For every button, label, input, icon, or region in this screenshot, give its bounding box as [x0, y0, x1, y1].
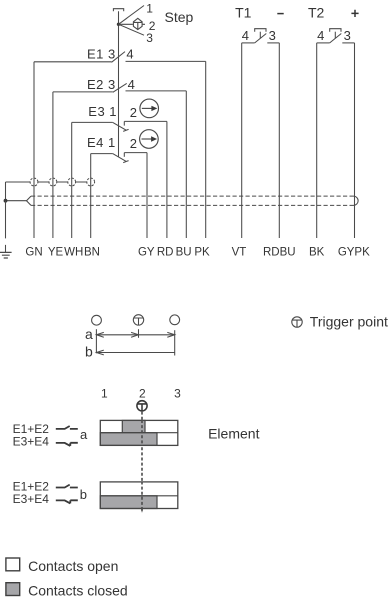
connector circle on YE [49, 178, 57, 186]
E4 contact blade [113, 154, 127, 162]
step selector line to position 3 [119, 24, 145, 35]
svg-text:2: 2 [130, 105, 137, 120]
T1 bracket [255, 29, 266, 32]
cable sheath dashed top line [31, 195, 354, 197]
svg-text:E1 3: E1 3 [87, 47, 116, 62]
dimension line a [96, 334, 174, 336]
arrowhead a right [167, 332, 174, 337]
svg-text:VT: VT [232, 246, 247, 258]
step selector line to position 2 [119, 23, 146, 25]
T2 contact right wire pin 3 [342, 42, 354, 44]
wire BK vertical [316, 43, 318, 238]
dimension right circle [170, 315, 180, 325]
svg-text:4: 4 [128, 77, 135, 92]
svg-text:4: 4 [317, 28, 324, 43]
svg-text:RD: RD [157, 246, 174, 258]
svg-text:3: 3 [344, 28, 351, 43]
wire RD vertical [166, 121, 168, 238]
svg-text:Trigger point: Trigger point [310, 314, 388, 330]
svg-text:E2 3: E2 3 [87, 77, 116, 92]
svg-text:1: 1 [101, 386, 108, 400]
svg-text:PK: PK [194, 246, 210, 258]
svg-text:a: a [85, 326, 93, 342]
E4 blade tip tick [123, 161, 128, 163]
cable sheath right end cap [354, 196, 359, 205]
row b mini closed contact [56, 500, 78, 503]
svg-text:Contacts open: Contacts open [28, 558, 118, 574]
E2 left wire pin 3 [53, 91, 113, 93]
element block a bottom row gray segment [100, 433, 157, 446]
wire GN vertical [33, 62, 35, 238]
cable sheath fork [27, 196, 32, 205]
svg-text:T1: T1 [235, 5, 252, 21]
arrowhead a middle [131, 332, 138, 337]
svg-text:T2: T2 [308, 5, 325, 21]
label minus [277, 13, 283, 15]
wire BU vertical [185, 91, 187, 238]
connector circle on WH [68, 178, 76, 186]
svg-text:3: 3 [269, 28, 276, 43]
element block a row divider [100, 432, 178, 434]
element block b border [100, 482, 178, 509]
wire WH vertical [71, 122, 73, 238]
svg-text:4: 4 [126, 47, 133, 62]
legend open box [6, 558, 20, 571]
step selector bracket [113, 9, 123, 12]
connector circle on BN [87, 178, 95, 186]
dimension line b [96, 352, 174, 354]
E3 trigger direction circle [140, 99, 159, 118]
E2 right wire pin 4 [126, 90, 187, 92]
row a mini closed contact [56, 443, 78, 446]
wire PK vertical [205, 61, 207, 238]
E4 trigger direction circle [140, 130, 159, 149]
wire BN vertical [90, 154, 92, 238]
row b mini open contact [56, 485, 78, 488]
arrowhead b left [96, 350, 103, 355]
svg-text:E4 1: E4 1 [87, 135, 116, 150]
svg-text:a: a [80, 427, 88, 442]
E3 left wire pin 1 [72, 121, 113, 123]
T1 contact left wire pin 4 [242, 42, 255, 44]
svg-text:2: 2 [130, 136, 137, 151]
svg-text:YE: YE [48, 246, 64, 258]
svg-text:2: 2 [139, 386, 146, 400]
dimension left circle [92, 315, 102, 325]
svg-text:Step: Step [165, 9, 194, 25]
element block b dashed line overlay [141, 482, 143, 513]
svg-text:3: 3 [174, 386, 181, 400]
trigger point symbol [292, 317, 302, 327]
E3 right wire pin 2 [124, 120, 167, 122]
svg-text:GY: GY [138, 246, 155, 258]
arrowhead a left [96, 332, 103, 337]
E3 contact blade [113, 122, 127, 130]
wire VT vertical [241, 43, 243, 238]
element block a outline [100, 420, 178, 445]
wire GY vertical [146, 153, 148, 238]
E1 right wire pin 4 [126, 60, 206, 62]
svg-text:3: 3 [146, 31, 153, 45]
element block b row divider [100, 495, 178, 497]
E4 right wire pin 2 [124, 152, 147, 154]
svg-text:Element: Element [208, 426, 259, 442]
svg-text:GYPK: GYPK [338, 246, 370, 258]
dimension left extension line [95, 329, 97, 353]
dimension middle extension tick [138, 329, 140, 338]
svg-text:WH: WH [64, 246, 83, 258]
svg-text:E3 1: E3 1 [88, 104, 117, 119]
step selector stem [118, 11, 120, 157]
wire GYPK vertical [354, 43, 356, 238]
row a mini open contact [56, 426, 78, 429]
E4 trigger arrow [142, 138, 152, 140]
svg-text:BK: BK [309, 246, 325, 258]
T2 actuator stem [334, 32, 336, 39]
cable sheath stem from junction [6, 200, 27, 202]
wire RDBU vertical [278, 43, 280, 238]
label plus [351, 10, 358, 17]
T1 actuator stem [259, 32, 261, 39]
svg-text:b: b [85, 344, 93, 360]
svg-text:Contacts closed: Contacts closed [28, 583, 128, 599]
svg-text:GN: GN [25, 246, 42, 258]
svg-text:BN: BN [84, 246, 100, 258]
ground wire [5, 201, 7, 253]
E3 trigger arrow [142, 107, 152, 109]
E1 contact blade [112, 52, 126, 63]
T1 contact blade [255, 34, 267, 43]
dimension right extension line [174, 330, 176, 355]
connector row horizontal link [6, 181, 95, 183]
ground symbol [0, 252, 12, 258]
cable sheath dashed bottom line [31, 204, 354, 206]
element block a dashed line overlay [141, 420, 143, 446]
svg-text:E3+E4: E3+E4 [13, 434, 50, 448]
element block a border [100, 420, 178, 445]
wire YE vertical [52, 92, 54, 238]
step selector pivot dot [117, 23, 120, 26]
E4 right terminal post [123, 153, 125, 157]
junction dot [4, 199, 8, 203]
step selector cube actuator symbol [133, 18, 142, 29]
svg-text:b: b [80, 487, 87, 502]
step selector line to position 1 [119, 6, 145, 25]
T2 contact blade [330, 34, 342, 43]
element block b outline [100, 482, 178, 509]
E4 left wire pin 1 [91, 153, 113, 155]
svg-text:1: 1 [146, 1, 153, 15]
svg-text:RDBU: RDBU [263, 246, 296, 258]
T2 bracket [330, 29, 341, 32]
element trigger dashed line [141, 412, 143, 513]
svg-text:BU: BU [176, 246, 192, 258]
legend closed box [6, 583, 20, 596]
E3 blade tip tick [123, 129, 128, 131]
element block b bottom row gray segment [100, 496, 157, 509]
element block a top row gray segment [122, 420, 145, 432]
connector circle on GN [30, 178, 38, 186]
T2 contact left wire pin 4 [317, 42, 330, 44]
T1 contact right wire pin 3 [267, 42, 279, 44]
svg-text:4: 4 [242, 28, 249, 43]
E3 right terminal post [123, 121, 125, 125]
E1 left wire pin 3 [34, 61, 112, 63]
E2 contact blade [113, 83, 127, 92]
element trigger point symbol [137, 401, 147, 411]
left rail vertical to junction [5, 182, 7, 201]
svg-text:E3+E4: E3+E4 [13, 492, 50, 506]
dimension trigger point circle [133, 315, 143, 325]
